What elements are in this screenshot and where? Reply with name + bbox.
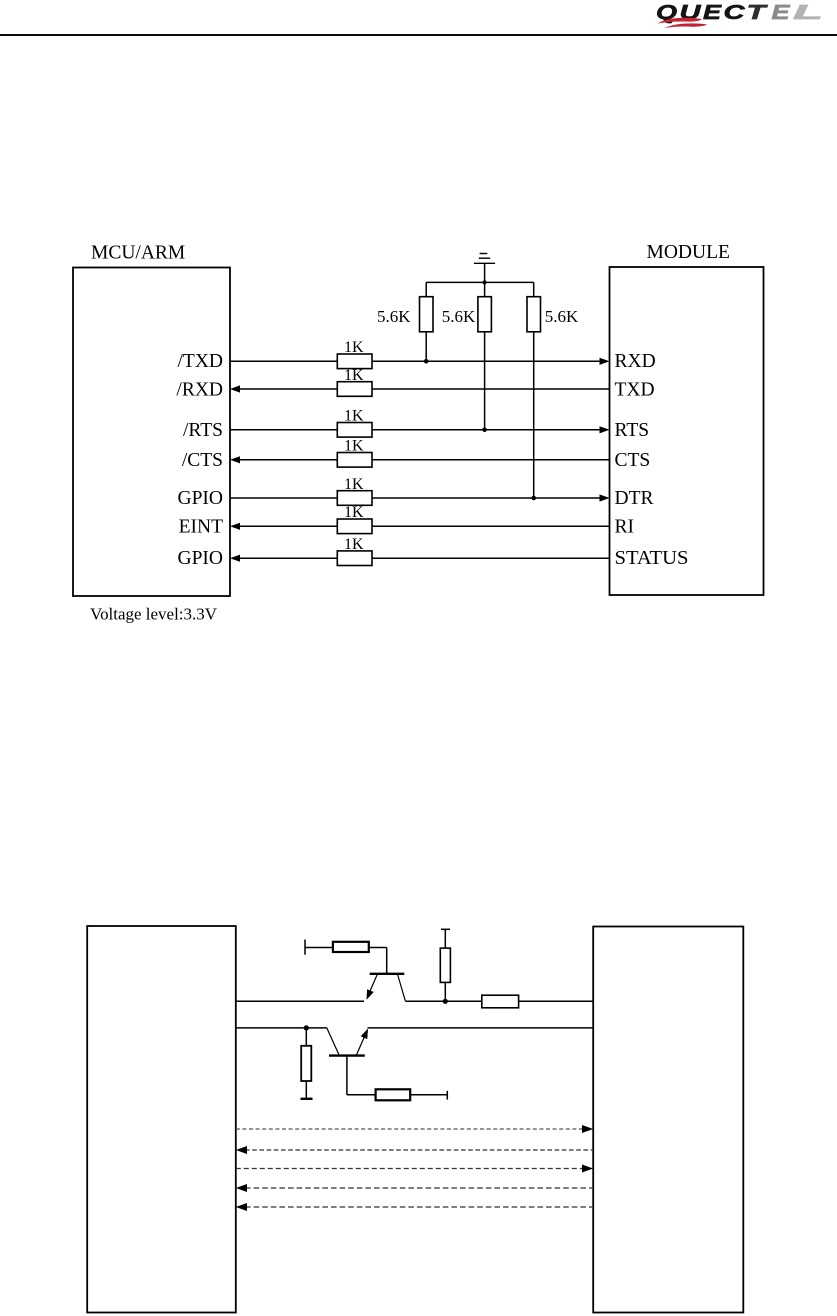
svg-text:E: E [772, 1, 792, 24]
svg-text:/RXD: /RXD [176, 380, 223, 401]
svg-text:1K: 1K [344, 408, 364, 425]
svg-text:RXD: RXD [615, 351, 656, 372]
svg-text:Voltage level:3.3V: Voltage level:3.3V [90, 605, 217, 624]
svg-text:/CTS: /CTS [182, 450, 223, 471]
svg-text:RTS: RTS [615, 420, 650, 441]
svg-text:MCU/ARM: MCU/ARM [91, 243, 185, 264]
svg-text:C: C [724, 1, 747, 24]
svg-text:1K: 1K [344, 339, 364, 356]
svg-text:5.6K: 5.6K [442, 307, 476, 326]
svg-text:1K: 1K [344, 476, 364, 493]
svg-text:/RTS: /RTS [183, 420, 223, 441]
svg-text:CTS: CTS [615, 450, 651, 471]
svg-text:1K: 1K [344, 367, 364, 384]
svg-text:1K: 1K [344, 438, 364, 455]
svg-text:1K: 1K [344, 536, 364, 553]
svg-text:STATUS: STATUS [615, 548, 689, 569]
svg-text:/TXD: /TXD [178, 351, 224, 372]
svg-text:RI: RI [615, 516, 635, 537]
svg-text:E: E [703, 1, 723, 24]
svg-text:EINT: EINT [179, 516, 223, 537]
svg-text:1K: 1K [344, 504, 364, 521]
svg-text:5.6K: 5.6K [545, 307, 579, 326]
svg-text:GPIO: GPIO [177, 488, 223, 509]
svg-text:GPIO: GPIO [177, 548, 223, 569]
svg-text:MODULE: MODULE [647, 242, 730, 263]
svg-text:L: L [793, 1, 823, 24]
svg-text:DTR: DTR [615, 488, 654, 509]
svg-text:TXD: TXD [615, 380, 655, 401]
svg-text:T: T [747, 1, 768, 24]
svg-text:5.6K: 5.6K [377, 307, 411, 326]
